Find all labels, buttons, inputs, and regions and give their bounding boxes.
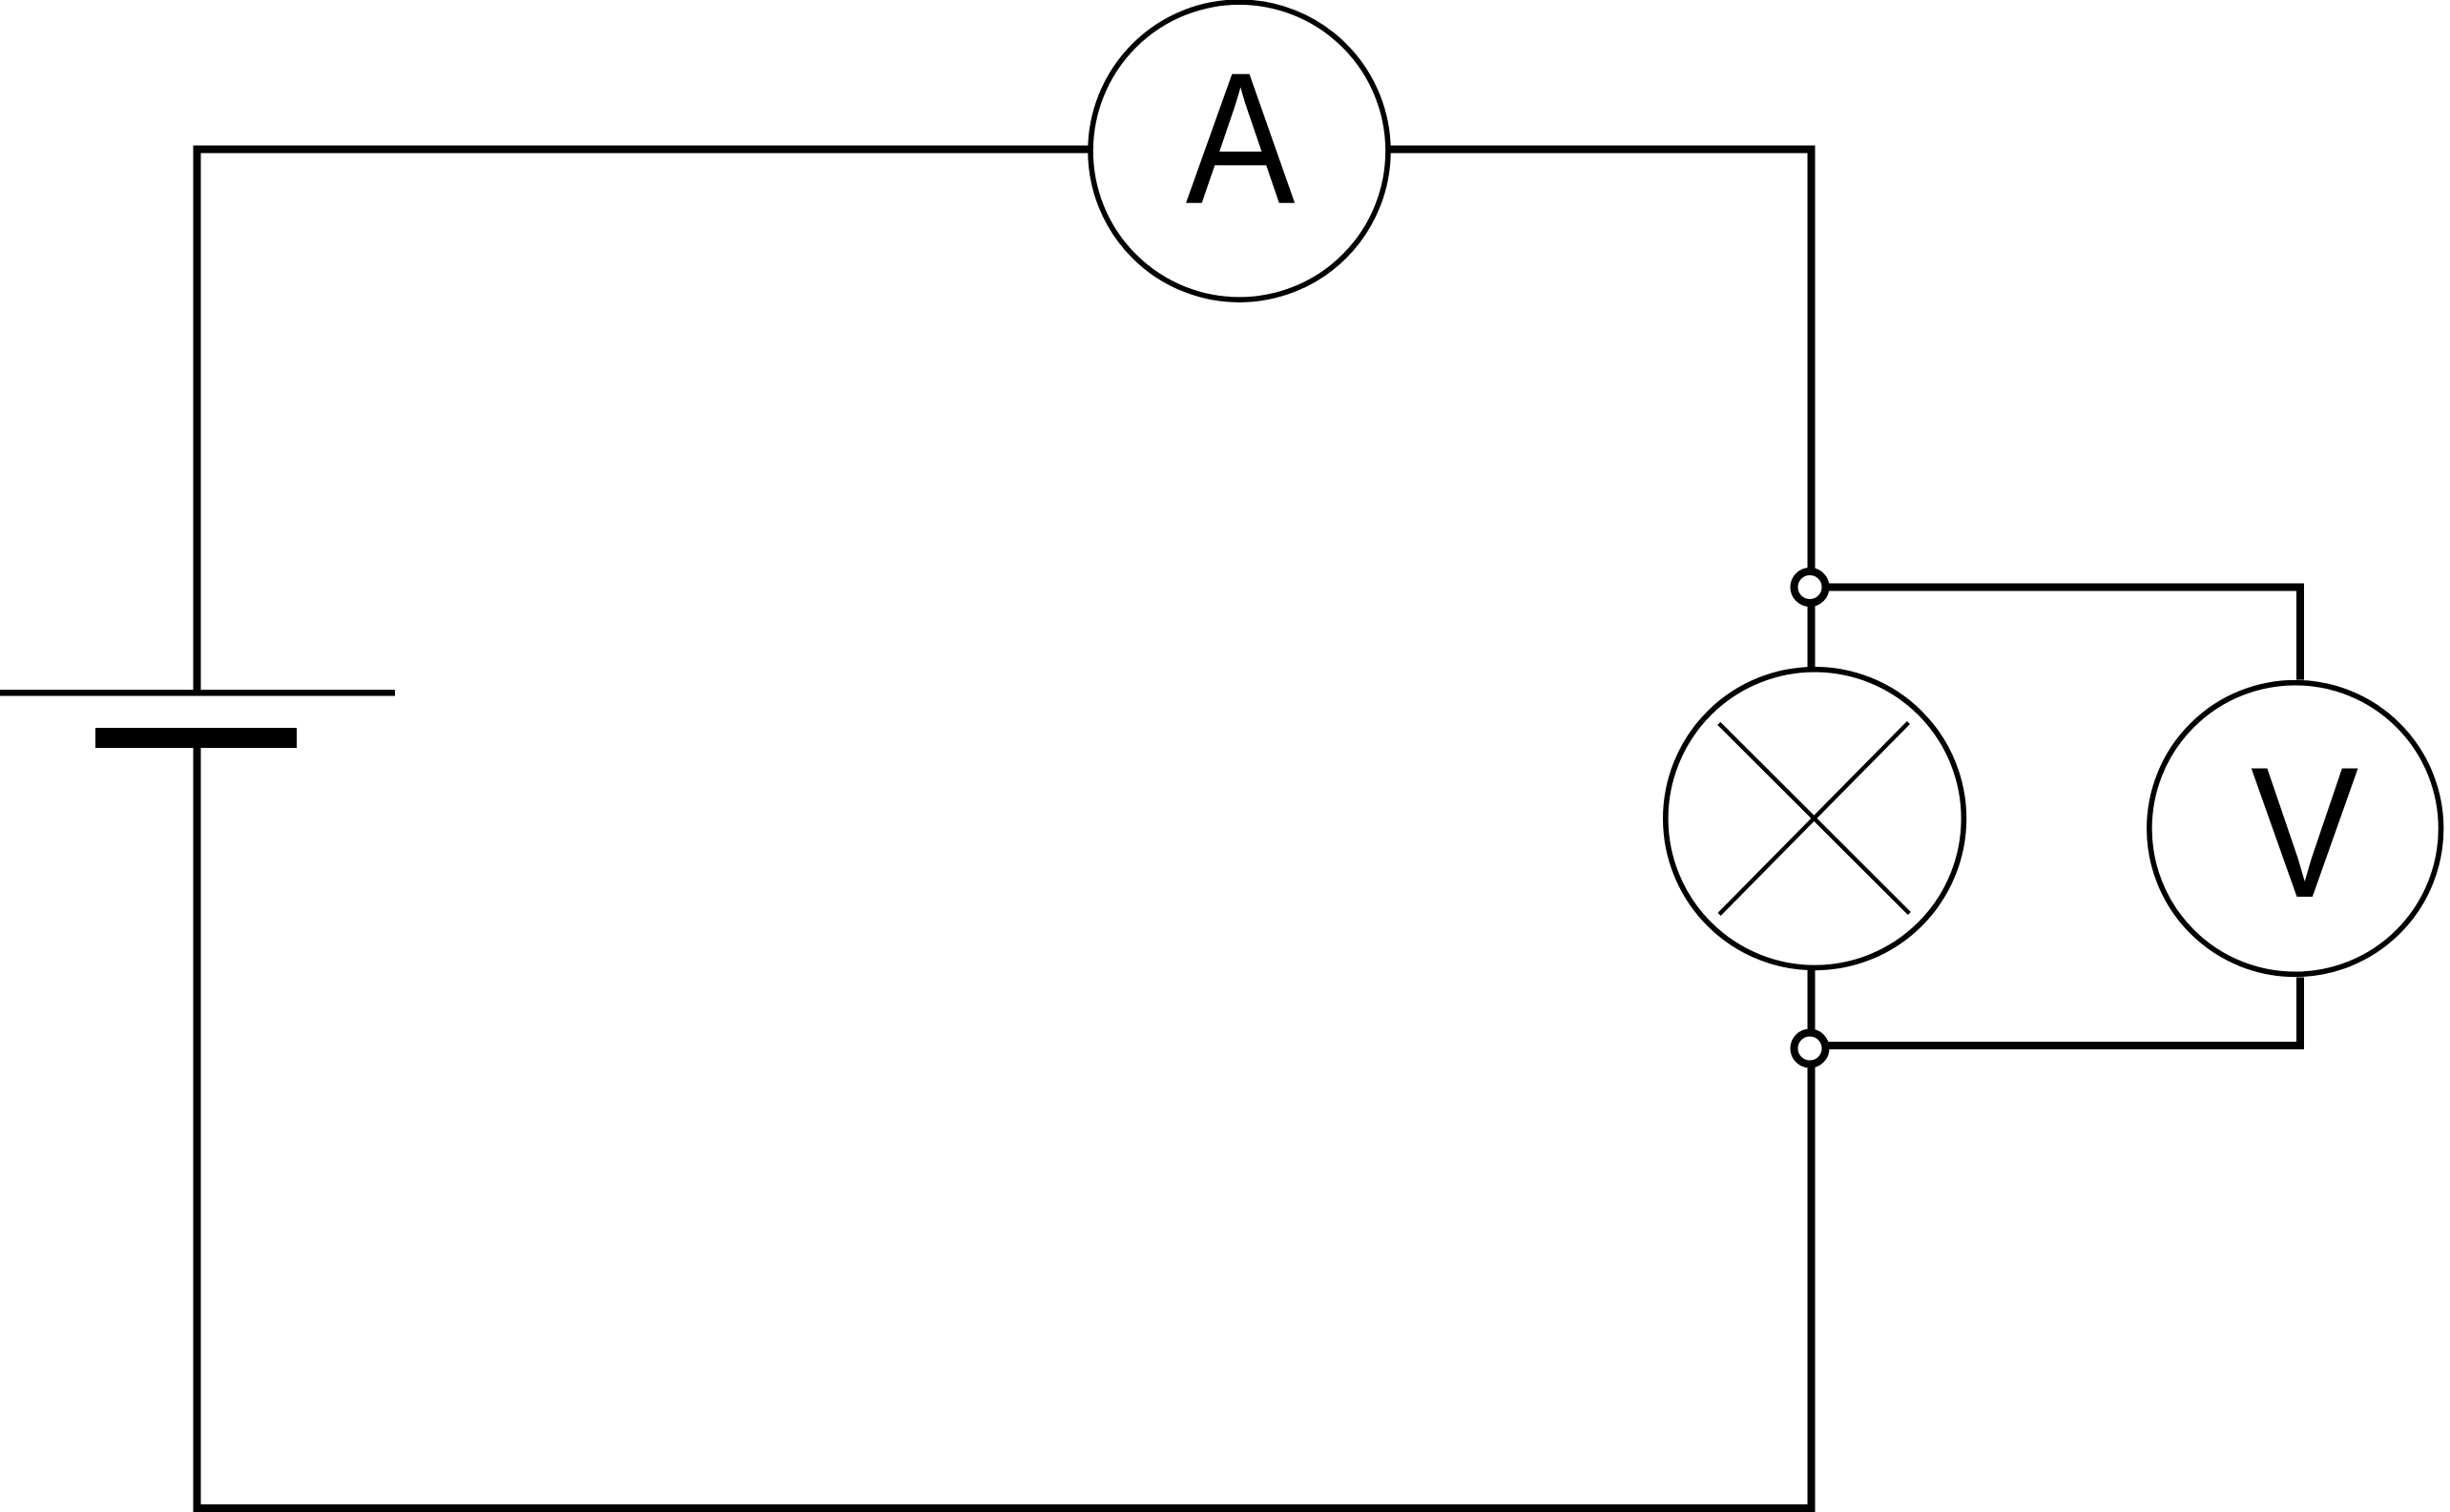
wire: top side (through ammeter) [194, 146, 1816, 154]
lamp L1: cross line (top-right to bottom-left) [1719, 723, 1908, 915]
wire: right side vertical (ammeter to bottom-right corner) [1808, 150, 1816, 1509]
voltmeter V1: circle [2149, 683, 2441, 975]
lamp L1: circle [1666, 670, 1964, 968]
voltmeter V1: letter V [2252, 768, 2358, 897]
lamp L1: cross line (top-left to bottom-right) [1719, 723, 1910, 913]
ammeter A1: circle [1090, 2, 1388, 300]
node A: junction terminal above lamp [1795, 571, 1826, 603]
wire: battery negative terminal down to bottom-left corner [194, 748, 201, 1508]
wire: bottom side [194, 1504, 1816, 1512]
wire: battery positive terminal up to top-left corner [194, 150, 201, 691]
node B: junction terminal below lamp [1795, 1033, 1826, 1065]
wire: voltmeter bottom to node B [1810, 978, 2300, 1046]
battery cell B1: long thin positive plate [0, 690, 395, 696]
battery cell B1: short thick negative plate [95, 728, 297, 748]
wire: node A to voltmeter top [1810, 588, 2300, 680]
ammeter A1: letter A [1186, 74, 1295, 203]
